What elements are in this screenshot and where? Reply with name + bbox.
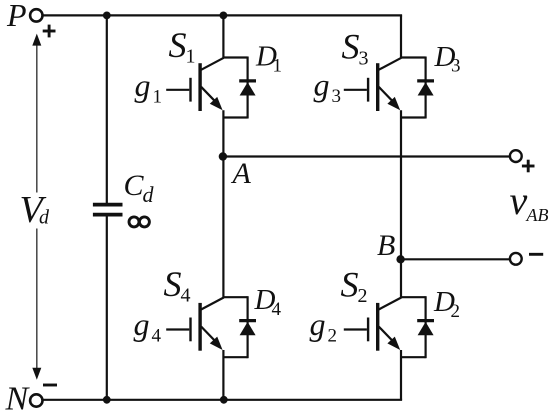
svg-text:g: g — [135, 67, 151, 103]
wire diode branch vertical of D3 — [425, 57, 427, 119]
Vd arrowhead up — [32, 34, 41, 46]
value label infinity — [129, 217, 139, 227]
transistor S4 emitter lead with arrow — [201, 327, 217, 344]
capacitor Cd — [93, 203, 123, 207]
junction top rail / S1 leg — [220, 12, 228, 20]
svg-text:d: d — [143, 182, 155, 207]
transistor S3 gate bar — [367, 78, 369, 102]
wire gate lead of S3 — [344, 89, 367, 91]
junction top rail / Cd — [103, 12, 111, 20]
wire right leg middle (S3 emitter through node B to S2) — [400, 110, 402, 298]
junction bottom rail / S4 leg — [220, 396, 228, 404]
terminal output minus circle — [510, 253, 522, 265]
wire diode branch vertical of D2 — [425, 296, 427, 358]
svg-text:2: 2 — [451, 301, 461, 322]
wire node A to output terminal — [223, 155, 510, 157]
transistor S3 emitter lead with arrow — [379, 87, 395, 104]
wire diode branch bottom of D2 — [401, 356, 426, 358]
svg-text:S: S — [341, 265, 359, 305]
transistor S2 collector lead — [379, 298, 402, 310]
diode D1 symbol — [239, 79, 256, 82]
transistor S4 gate bar — [189, 318, 191, 342]
wire diode branch top of D4 — [223, 296, 247, 298]
svg-text:2: 2 — [358, 285, 368, 307]
svg-text:S: S — [164, 264, 182, 304]
transistor S3 body bar — [376, 63, 379, 111]
transistor S2 body bar — [376, 303, 379, 351]
wire diode branch vertical of D4 — [247, 296, 249, 358]
svg-text:N: N — [5, 381, 31, 418]
wire Cd branch lower — [106, 216, 108, 400]
svg-text:S: S — [342, 27, 360, 67]
svg-text:3: 3 — [359, 48, 369, 70]
plus sign at output — [522, 165, 535, 168]
wire right leg collector (top rail to S3) — [400, 15, 402, 58]
minus sign at output — [529, 253, 543, 256]
node B junction — [396, 255, 404, 263]
transistor S4 body bar — [198, 303, 201, 351]
wire gate lead of S1 — [166, 89, 189, 91]
wire diode branch top of D3 — [401, 56, 426, 58]
Vd measurement arrow shaft lower — [36, 229, 38, 372]
wire diode branch vertical of D1 — [247, 57, 249, 119]
transistor S2 emitter lead with arrow — [379, 327, 395, 344]
transistor S2 gate bar — [367, 318, 369, 342]
svg-text:C: C — [124, 169, 145, 202]
wire Cd branch upper — [106, 15, 108, 203]
wire diode branch top of D1 — [223, 56, 247, 58]
svg-text:1: 1 — [273, 56, 283, 77]
node A junction — [219, 152, 227, 160]
svg-text:1: 1 — [186, 46, 196, 68]
transistor S1 body bar — [198, 63, 201, 111]
junction bottom rail / Cd — [103, 396, 111, 404]
diode D3 symbol — [417, 79, 434, 82]
transistor S1 collector lead — [201, 58, 224, 70]
Vd arrowhead down — [32, 368, 41, 380]
transistor S4 collector lead — [201, 298, 224, 310]
svg-text:2: 2 — [328, 326, 338, 347]
plus sign at P — [43, 30, 56, 33]
terminal N circle — [30, 394, 42, 406]
svg-text:g: g — [314, 67, 330, 103]
diode D4 symbol — [239, 319, 256, 322]
svg-text:v: v — [510, 178, 528, 223]
svg-text:3: 3 — [451, 56, 461, 77]
svg-text:4: 4 — [272, 299, 282, 320]
svg-text:1: 1 — [153, 87, 163, 108]
wire gate lead of S2 — [344, 328, 367, 330]
wire diode branch bottom of D1 — [223, 116, 247, 118]
wire right leg bottom (S2 emitter to N bus) — [400, 350, 402, 400]
svg-text:AB: AB — [526, 205, 549, 225]
transistor S1 gate bar — [189, 78, 191, 102]
wire top rail (P bus) — [43, 14, 403, 16]
wire bottom rail (N bus) — [43, 399, 403, 401]
diode D2 symbol — [417, 319, 434, 322]
transistor S1 emitter lead with arrow — [201, 87, 217, 104]
wire diode branch bottom of D3 — [401, 116, 426, 118]
svg-text:4: 4 — [152, 326, 162, 347]
wire left leg bottom (S4 emitter to N bus) — [222, 350, 224, 400]
svg-text:P: P — [6, 0, 27, 33]
wire left leg middle (S1 emitter through node A to S4) — [222, 110, 224, 298]
svg-text:d: d — [39, 207, 50, 229]
svg-text:g: g — [310, 306, 326, 342]
svg-text:S: S — [169, 25, 187, 65]
node B junction wire — [401, 258, 510, 260]
terminal output plus circle — [510, 150, 522, 162]
wire diode branch top of D2 — [401, 296, 426, 298]
svg-text:A: A — [231, 157, 252, 190]
Vd measurement arrow shaft upper — [36, 43, 38, 193]
wire left leg collector (top rail to S1) — [222, 15, 224, 58]
svg-text:4: 4 — [181, 285, 191, 307]
transistor S3 collector lead — [379, 58, 402, 70]
svg-text:g: g — [134, 306, 150, 342]
svg-text:B: B — [377, 229, 395, 262]
minus sign at N — [43, 384, 57, 387]
wire gate lead of S4 — [166, 328, 189, 330]
terminal P circle — [30, 9, 42, 21]
wire diode branch bottom of D4 — [223, 356, 247, 358]
svg-text:3: 3 — [332, 86, 342, 107]
